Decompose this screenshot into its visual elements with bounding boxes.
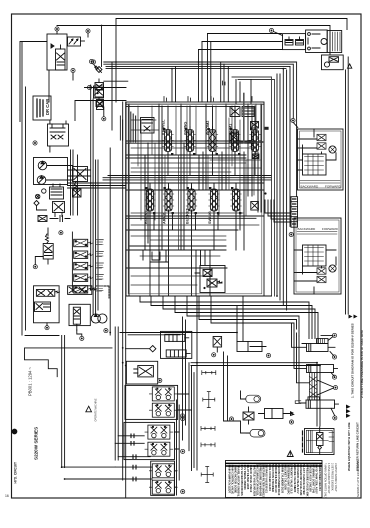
valve V2 <box>48 121 69 152</box>
label box DR CAB <box>33 96 51 120</box>
svg-text:3 APPLY S220W-V ONLY: 3 APPLY S220W-V ONLY <box>334 463 338 492</box>
parts list table <box>226 461 323 498</box>
wire staircase 2 <box>151 296 312 339</box>
svg-text:WHEN EQUIPPED WITH OPT LINE: WHEN EQUIPPED WITH OPT LINE <box>347 422 351 471</box>
wire staircase 1 <box>140 296 309 339</box>
accumulator column text <box>131 112 136 142</box>
spool row2 BOOM1 <box>145 186 156 214</box>
feeder tick e <box>133 477 136 481</box>
stack label SV4t <box>97 275 104 280</box>
svg-text:1. THIS CIRCUIT DIAGRAM IS FOR: 1. THIS CIRCUIT DIAGRAM IS FOR S220W-V S… <box>351 323 355 398</box>
travel motor T2 <box>294 218 341 294</box>
terminal cy1b <box>332 355 336 359</box>
T2 internal wires <box>294 250 336 294</box>
terminal dc2 <box>289 420 293 424</box>
parts list header band <box>226 463 322 466</box>
spool stubs row2 <box>150 183 240 296</box>
svg-text:16: 16 <box>5 494 9 498</box>
relay box K1 <box>47 34 67 70</box>
arm cylinder CY2 <box>307 365 338 373</box>
terminal pv2 <box>181 417 185 421</box>
pump drain lines <box>46 166 91 181</box>
wire A6 down <box>77 330 82 336</box>
svg-text:2 SET PRESS 330/350K: 2 SET PRESS 330/350K <box>331 463 335 491</box>
wire S1 <box>85 88 104 117</box>
return filter capsule OC2 <box>246 429 265 437</box>
wire staircase 7 <box>211 296 294 330</box>
terminal E <box>71 68 75 72</box>
solenoid S9 <box>213 337 222 353</box>
svg-text:30 BREATHER AB1234: 30 BREATHER AB1234 <box>318 463 322 492</box>
terminal t2 <box>289 232 293 236</box>
terminal cy1a <box>332 333 336 337</box>
terminal pv3 <box>181 449 185 453</box>
boom cylinder CY1 <box>307 337 336 352</box>
solenoid valve Y1 <box>43 234 53 264</box>
terminal a2 <box>102 117 106 121</box>
terminal pv1 <box>180 414 184 418</box>
regulator block R1 <box>50 184 64 199</box>
wire cy2 <box>331 373 334 377</box>
svg-text:BOOM2: BOOM2 <box>206 121 210 135</box>
spool row2 TRAVEL2 <box>231 186 242 214</box>
wire cylinder feeds <box>292 327 333 403</box>
note triangle 3 <box>86 406 92 412</box>
check valve diamond <box>94 64 103 73</box>
EPPR valve box <box>126 361 157 384</box>
spool V11 <box>163 127 174 155</box>
pump enclosure <box>34 158 68 185</box>
pedal riser wires <box>177 296 198 495</box>
wire alt <box>274 32 283 36</box>
wire staircase 4 <box>175 296 318 344</box>
block fine verticals <box>131 104 261 285</box>
spool V13 <box>207 127 218 155</box>
wire S1 to block <box>90 62 128 130</box>
svg-text:1 TANK CAPACITY 220 LIT: 1 TANK CAPACITY 220 LIT <box>327 463 331 494</box>
svg-text:S220W SERIES: S220W SERIES <box>34 427 39 460</box>
cutoff valve A5 <box>34 286 60 323</box>
solenoid valve SV1 <box>74 239 103 246</box>
stack label SV1t <box>97 240 104 245</box>
terminal S <box>91 60 95 64</box>
valve RV2 <box>73 189 82 197</box>
pressure line T <box>243 94 245 143</box>
strainer diamond <box>126 346 156 352</box>
wire feeder bus <box>104 62 296 69</box>
terminal p5 <box>104 329 108 333</box>
pump P2 <box>37 176 46 185</box>
note triangle 2 <box>287 451 293 457</box>
wire v3 link <box>75 101 126 121</box>
valve under pumps <box>53 202 65 217</box>
gauge port G1 <box>202 371 216 375</box>
check module C2 <box>242 107 254 117</box>
note triangle 1 <box>348 64 352 68</box>
pump P1 <box>38 161 47 170</box>
svg-text:DR CAB: DR CAB <box>45 99 50 115</box>
terminal cv1 <box>333 386 337 390</box>
pedal valve box PV3 <box>149 461 177 495</box>
engine box E1 <box>306 30 328 53</box>
cooler box E3 <box>322 55 344 70</box>
return cylinder DC2 <box>259 409 294 419</box>
wire A5 down <box>46 323 48 326</box>
feeder tick b <box>131 442 134 446</box>
svg-text:* MARK OPTION PARTS ONLY: * MARK OPTION PARTS ONLY <box>324 463 328 499</box>
wire battery top <box>20 26 102 122</box>
gauge port G5 <box>201 467 213 483</box>
riser label text <box>120 116 122 140</box>
spool stubs row1 <box>168 106 255 176</box>
wire main rails left <box>91 85 111 335</box>
relief valve RV1 <box>73 167 88 192</box>
main relief bar <box>238 141 263 143</box>
block top rail <box>126 80 264 107</box>
steering unit box SU <box>303 427 335 455</box>
right note text 2 <box>347 422 359 471</box>
wire mid bus <box>191 363 320 426</box>
svg-text:FORWARD: FORWARD <box>322 227 339 231</box>
wire to T1 <box>293 123 298 128</box>
pilot pump P4 <box>36 194 40 198</box>
wire left staircase <box>25 336 119 480</box>
stack label SV3t <box>97 263 104 267</box>
check module C5 <box>230 133 239 143</box>
block outer jacket <box>232 77 275 296</box>
radiator E2 <box>327 31 342 53</box>
wire to drain cyl <box>120 296 243 342</box>
svg-text:OPERATE MACHINE: OPERATE MACHINE <box>95 398 98 421</box>
solenoid valve SV5 <box>74 286 103 293</box>
T1 internal wires <box>298 129 337 170</box>
wire pilot risers <box>172 34 228 103</box>
cushion valve column <box>310 373 334 400</box>
wire top bus 1 <box>116 19 347 103</box>
fan motor M1 <box>91 314 107 323</box>
travel motor T1 <box>298 129 344 190</box>
wire pedal feeders <box>115 102 126 497</box>
svg-text:2. PILOT LINE PRESSURE IS 40K: 2. PILOT LINE PRESSURE IS 40K AT FULL RP… <box>360 330 364 398</box>
right note text 1 <box>351 323 365 398</box>
svg-text:BACKWARD: BACKWARD <box>301 185 320 189</box>
solenoid valve SV2 <box>74 251 103 258</box>
spool row2 SWING2 <box>209 186 220 214</box>
spool row2 BUCKET <box>186 186 197 214</box>
wire pump to block <box>68 183 127 188</box>
feeder tick d <box>133 465 136 469</box>
pilot port marks row1 <box>145 128 252 214</box>
wire block bottom edge <box>126 295 272 297</box>
junction box J1 <box>283 34 306 50</box>
block inner outline <box>128 104 262 294</box>
oil cooler capsule OC1 <box>242 395 261 403</box>
pedal valve box PV2 <box>124 422 175 459</box>
block internal verticals <box>129 104 261 296</box>
note arrows right2 <box>346 405 351 418</box>
svg-text:BUCKET: BUCKET <box>186 207 190 224</box>
svg-text:S220W-V HYD 2210-1059A: S220W-V HYD 2210-1059A <box>356 460 360 497</box>
pedal link stubs <box>175 394 192 487</box>
terminal cy3 <box>333 416 337 420</box>
feeder tick a <box>131 434 134 438</box>
main valve block outline <box>126 102 264 296</box>
terminal dc1 <box>266 353 270 357</box>
terminal t1 <box>291 118 295 122</box>
gauge port G4 <box>201 443 215 447</box>
junction dot <box>264 192 266 194</box>
accumulator pack AC1 <box>161 331 192 358</box>
terminal a1 <box>87 85 91 89</box>
pump box bottom parts <box>38 216 70 222</box>
wire top bus 2 <box>102 26 331 55</box>
terminal p2 <box>33 265 37 269</box>
note text columns <box>324 463 338 499</box>
terminal p3 <box>45 326 49 330</box>
gear pump P3 <box>42 189 46 193</box>
spool V14 <box>230 127 241 155</box>
small valve C8 <box>251 202 259 211</box>
relief module C3 <box>251 122 259 129</box>
block mid rails <box>103 141 271 268</box>
terminal 30 <box>55 27 59 31</box>
wire strip fan <box>265 200 291 222</box>
gauge port G2 <box>203 392 215 408</box>
terminal e1 <box>158 378 162 382</box>
stack label SV5t <box>97 286 104 290</box>
feeder tick c <box>133 455 136 459</box>
port block C4 <box>265 127 269 130</box>
terminal B+ <box>86 29 90 33</box>
svg-text:HYD. CIRCUIT: HYD. CIRCUIT <box>13 462 17 483</box>
wire cy3 <box>331 408 335 416</box>
block extra rails <box>126 158 264 246</box>
wire staircase 5 <box>187 296 299 336</box>
terminal p4 <box>80 336 84 340</box>
title stamp <box>12 429 17 483</box>
two-stage valve A6 <box>68 286 97 330</box>
wire left rail <box>22 42 26 335</box>
note arrow single <box>290 411 294 415</box>
title text series <box>28 366 39 460</box>
solenoid stack S1 <box>89 59 103 106</box>
suction strainer <box>34 201 47 211</box>
pilot filter F1 <box>141 118 155 134</box>
port tick labels <box>164 81 252 101</box>
spool V15 <box>250 127 261 155</box>
bucket cylinder CY3 <box>295 397 338 408</box>
wire feeder taps <box>115 436 152 479</box>
wire right risers <box>277 57 348 314</box>
terminal cy2 <box>332 375 336 379</box>
terminal alt <box>269 28 273 32</box>
gauge port G3 <box>201 426 215 430</box>
swing brake valve SB <box>195 266 225 293</box>
bottom stubs <box>143 250 168 262</box>
solenoid valve SV4 <box>74 274 103 281</box>
bypass valve BV1 <box>243 412 254 420</box>
parts list text <box>227 463 321 498</box>
stack label SV2t <box>97 252 104 257</box>
svg-text:BACKWARD: BACKWARD <box>298 227 317 231</box>
spool row2 ARM2 <box>163 186 174 214</box>
spool V12 <box>185 127 196 155</box>
dashed drain M1 <box>96 286 109 298</box>
pressure switch B1 <box>68 37 85 46</box>
solenoid V3 <box>94 86 104 110</box>
stack port fills <box>75 240 87 292</box>
terminal pv4 <box>181 490 185 494</box>
svg-text:PB001 : 1294 ~: PB001 : 1294 ~ <box>28 366 33 396</box>
check module C7 <box>252 154 259 159</box>
svg-text:ARM2: ARM2 <box>163 213 167 224</box>
wire pump rails <box>71 150 78 215</box>
wire Y1 <box>35 228 48 265</box>
svg-text:FORWARD: FORWARD <box>325 185 342 189</box>
drain cylinder DC1 <box>237 342 266 352</box>
terminal bv1 <box>229 417 233 421</box>
wire cy1b <box>330 352 334 356</box>
wire staircase 6 <box>199 296 297 329</box>
solenoid valve SV3 <box>74 262 103 269</box>
terminal p1 <box>59 231 63 235</box>
port block C6 <box>247 140 251 143</box>
wire staircase 3 <box>163 296 315 339</box>
check module C1 <box>230 107 240 117</box>
terminal s9 <box>212 353 216 357</box>
terminal strip CN1 <box>291 197 298 228</box>
pedal valve box PV1 <box>125 385 178 419</box>
wire riser top links <box>199 34 283 50</box>
terminal drc <box>33 141 37 145</box>
note arrows right <box>349 315 358 319</box>
wire drain group <box>224 352 251 433</box>
wire K1 right <box>49 26 102 103</box>
block lower-right chamber <box>196 250 210 296</box>
solenoid manifold rail <box>71 232 73 292</box>
